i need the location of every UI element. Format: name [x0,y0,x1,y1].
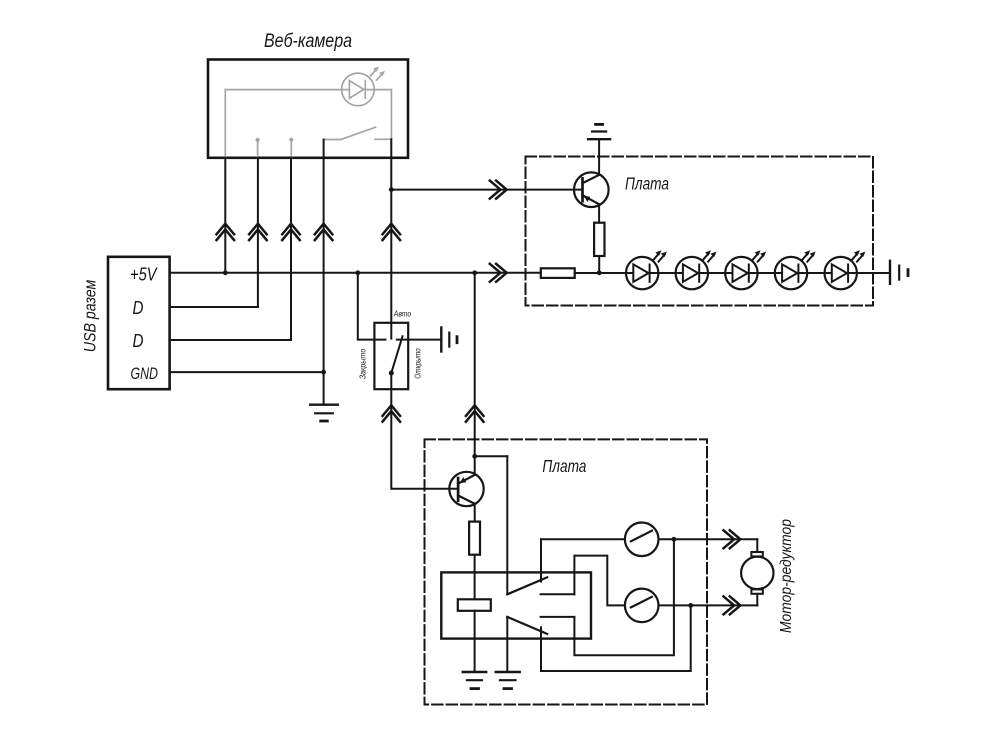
relay box K1 [441,572,591,638]
connector chevron on +5V drop [466,405,484,421]
wire lower plate to motor-top riser [574,539,674,655]
switch inside webcam [324,139,341,141]
svg-text:D: D [133,298,144,318]
wire Q1 emitter down [598,204,600,223]
junction dot GND [321,370,326,375]
relay contact arm upper [507,577,547,594]
USB connector box [108,257,170,389]
motor M1 [741,557,773,589]
junction dot collector node [472,454,477,459]
wire R1 to rail [598,256,600,273]
wire W2 data D [257,158,259,307]
LED HL1 [626,250,667,289]
connector chevron on W4 [315,224,333,240]
wire (gray) webcam cathode drop [390,90,392,140]
svg-text:Плата: Плата [625,173,669,193]
wire lower NO contact to outer loop [541,605,691,671]
svg-text:Закрыто: Закрыто [358,349,368,380]
relay coil K1 [458,599,491,611]
resistor R4 [469,522,480,555]
connector chevron motor top [724,530,741,548]
wire (gray) webcam +5V vertical [224,90,226,158]
svg-text:+5V: +5V [130,265,158,285]
limit switch SQ1 [625,523,659,557]
LED HL3 [725,250,766,289]
wire Q1 collector up [598,139,600,175]
wire W3 data D [290,158,292,340]
wire SQ1 left [541,538,625,540]
junction dot R1-rail [597,270,602,275]
ground symbol G1 [463,671,486,673]
connector chevron on W5 [383,224,401,240]
svg-text:Открыто: Открыто [412,348,422,379]
LED HL2 [676,250,717,289]
wire +5V rail [170,272,541,274]
relay contact arm lower [507,617,547,634]
upper board dashed outline [526,157,874,306]
wire coil to ground [474,611,476,672]
selector pole from webcam [390,323,392,339]
wire lower arm to ground [506,617,508,672]
wire upper plate to SQ2 [574,556,625,606]
resistor R2 horizontal [541,268,575,278]
wire LED rail [575,272,890,274]
LED HL0 inside webcam [342,73,375,106]
wire SQ1 NO contact drop [540,539,542,581]
connector chevron on base wire [490,181,507,199]
wire base of Q1 from W5 [391,189,582,191]
connector chevron on W2 [249,224,267,240]
wire rail to selector left throw [358,273,386,340]
ground symbol right of selector [440,328,442,352]
svg-text:GND: GND [131,364,159,383]
node webcam D stub 1 [257,140,259,158]
connector chevron motor bottom [724,596,741,614]
selector switch box SA1 [374,323,408,389]
transistor Q1 [574,172,609,207]
wire SQ2 right to board edge [659,604,758,606]
junction dot motor-top [672,537,677,542]
ground symbol above Q1 [588,138,610,140]
wire W1 +5V to webcam [224,158,226,273]
LED HL4 [775,250,816,289]
wire Q2 collector down [474,504,476,522]
selector right throw to ground [397,339,442,341]
connector chevron on W1 [217,224,235,240]
connector chevron on W3 [282,224,300,240]
fixed contact upper plate [541,593,575,595]
fixed contact lower plate [541,616,575,618]
ground symbol right of LEDs [889,261,891,284]
wire R4 to relay coil [474,555,476,600]
junction dot rail-webcam [223,270,228,275]
transistor Q2 [449,472,483,506]
wire branch to relay contacts common [475,455,508,457]
svg-text:Авто: Авто [393,309,412,319]
svg-text:Веб-камера: Веб-камера [264,31,352,52]
wire upper arm feed [506,456,508,594]
svg-text:USB разем: USB разем [81,279,100,352]
selector blade [391,336,402,373]
connector chevron on rail [490,264,507,282]
webcam enclosure [208,60,408,158]
limit switch SQ2 [625,589,659,623]
node webcam D stub 2 [290,140,292,158]
svg-text:Мотор-редуктор: Мотор-редуктор [778,519,795,633]
wire (gray) webcam LED anode horizontal [225,89,349,91]
lower board dashed outline [425,439,708,704]
junction dot base wire tap [389,187,394,192]
wire selector common down to lower board [391,373,458,489]
junction dot rail-drop [472,270,477,275]
connector chevron on selector drop [383,405,401,421]
wire (gray) webcam LED cathode horizontal [365,89,391,91]
wire W5 webcam switch to selector [390,139,392,322]
wire +5V drop to lower board [474,273,476,475]
LED HL5 [825,250,866,289]
resistor R1 [594,223,604,256]
svg-text:D: D [133,331,144,351]
junction dot rail-selector [355,270,360,275]
svg-text:Плата: Плата [542,456,586,476]
wire SQ1 right to board edge [659,538,758,540]
junction dot motor-bottom [688,603,693,608]
ground symbol G2 [496,671,520,673]
ground symbol below W4 [310,404,338,406]
wire W4 GND to webcam switch [323,140,325,405]
wire to motor terminals [756,539,758,552]
